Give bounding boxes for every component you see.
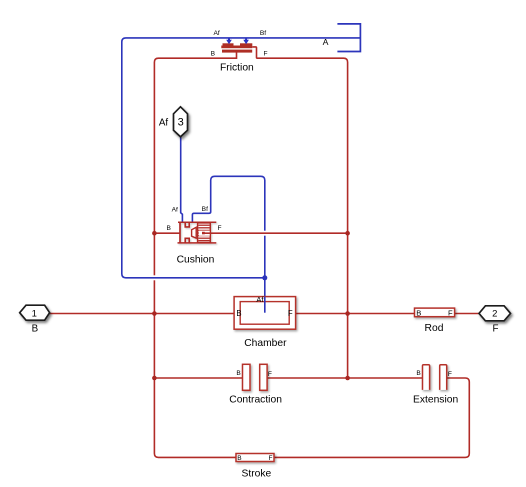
svg-text:B: B bbox=[416, 308, 421, 317]
svg-text:F: F bbox=[217, 225, 221, 232]
junction blue net A / Chamber Af bbox=[262, 275, 267, 280]
svg-text:Cushion: Cushion bbox=[177, 255, 215, 266]
svg-text:Af: Af bbox=[159, 117, 169, 128]
svg-text:F: F bbox=[448, 308, 453, 317]
svg-text:Af: Af bbox=[213, 30, 219, 37]
port 3 hexagon bbox=[174, 107, 188, 137]
chamber blue stub bbox=[264, 297, 266, 313]
rod block bbox=[415, 308, 455, 317]
labels: block names bbox=[177, 62, 459, 479]
svg-text:B: B bbox=[416, 370, 421, 377]
wire red: contraction row left segment bbox=[154, 377, 242, 379]
junction right-vertical / Cushion F bbox=[345, 231, 350, 236]
contraction block bbox=[243, 364, 268, 390]
junction left-vertical / Cushion B bbox=[152, 231, 157, 236]
svg-text:F: F bbox=[263, 51, 267, 58]
junction right-vertical / contraction line bbox=[345, 376, 350, 381]
svg-text:B: B bbox=[236, 309, 241, 318]
svg-text:A: A bbox=[323, 37, 329, 47]
stroke block bbox=[236, 454, 274, 462]
svg-text:1: 1 bbox=[32, 309, 37, 320]
wire blue: top line + left drop + horizontal to junction (with halo over red vertical) bbox=[150, 275, 159, 280]
svg-text:Bf: Bf bbox=[260, 30, 266, 37]
chamber block bbox=[234, 297, 296, 330]
svg-text:Chamber: Chamber bbox=[244, 338, 287, 349]
svg-text:B: B bbox=[32, 324, 39, 335]
wire red: friction B stub + left vertical + bottom stroke line + right riser + extension F stub bbox=[154, 52, 469, 457]
wire red: cushion B segment bbox=[154, 232, 180, 234]
port 2 hexagon bbox=[479, 306, 511, 321]
svg-text:F: F bbox=[448, 371, 452, 378]
wire red: friction F stub + right vertical bbox=[252, 47, 347, 378]
port name labels bbox=[32, 37, 499, 335]
svg-text:Friction: Friction bbox=[220, 62, 254, 73]
extension block bbox=[423, 365, 447, 390]
svg-text:Af: Af bbox=[172, 207, 178, 214]
wire blue: cushion Bf up-over-down to junction and chamber Af bbox=[192, 176, 264, 312]
cushion icon bbox=[178, 222, 217, 243]
svg-text:Rod: Rod bbox=[425, 323, 444, 334]
cushion F wire over blue (halo) bbox=[260, 231, 270, 236]
friction arrow Bf bbox=[243, 38, 249, 44]
svg-text:Bf: Bf bbox=[202, 206, 208, 213]
wire red: main horizontal B-F line bbox=[50, 313, 480, 315]
port numbers bbox=[32, 117, 498, 320]
svg-text:B: B bbox=[236, 370, 241, 377]
svg-text:B: B bbox=[237, 455, 242, 462]
svg-text:Stroke: Stroke bbox=[242, 468, 272, 479]
junction left-vertical / contraction line bbox=[152, 376, 157, 381]
wire blue: hexagon 3 drop to cushion Af bbox=[181, 137, 183, 223]
svg-text:F: F bbox=[493, 324, 499, 335]
svg-text:3: 3 bbox=[178, 117, 184, 129]
junction right-vertical / main B-F line bbox=[345, 311, 350, 316]
wire red: contraction row right segment to extension bbox=[267, 377, 422, 379]
icon port labels bbox=[166, 30, 452, 462]
svg-text:B: B bbox=[211, 51, 216, 58]
friction icon U1 plates bbox=[221, 43, 252, 52]
junction left-vertical / main B-F line bbox=[152, 311, 157, 316]
friction arrow Af bbox=[226, 38, 232, 44]
port 1 hexagon bbox=[20, 305, 50, 320]
svg-text:F: F bbox=[268, 371, 272, 378]
port A bracket bbox=[337, 24, 360, 52]
svg-text:Contraction: Contraction bbox=[229, 395, 282, 406]
svg-text:Af: Af bbox=[256, 295, 264, 304]
svg-text:B: B bbox=[166, 225, 171, 232]
svg-text:F: F bbox=[268, 455, 272, 462]
svg-text:Extension: Extension bbox=[413, 394, 458, 405]
svg-text:2: 2 bbox=[492, 309, 497, 320]
svg-text:F: F bbox=[288, 309, 293, 318]
